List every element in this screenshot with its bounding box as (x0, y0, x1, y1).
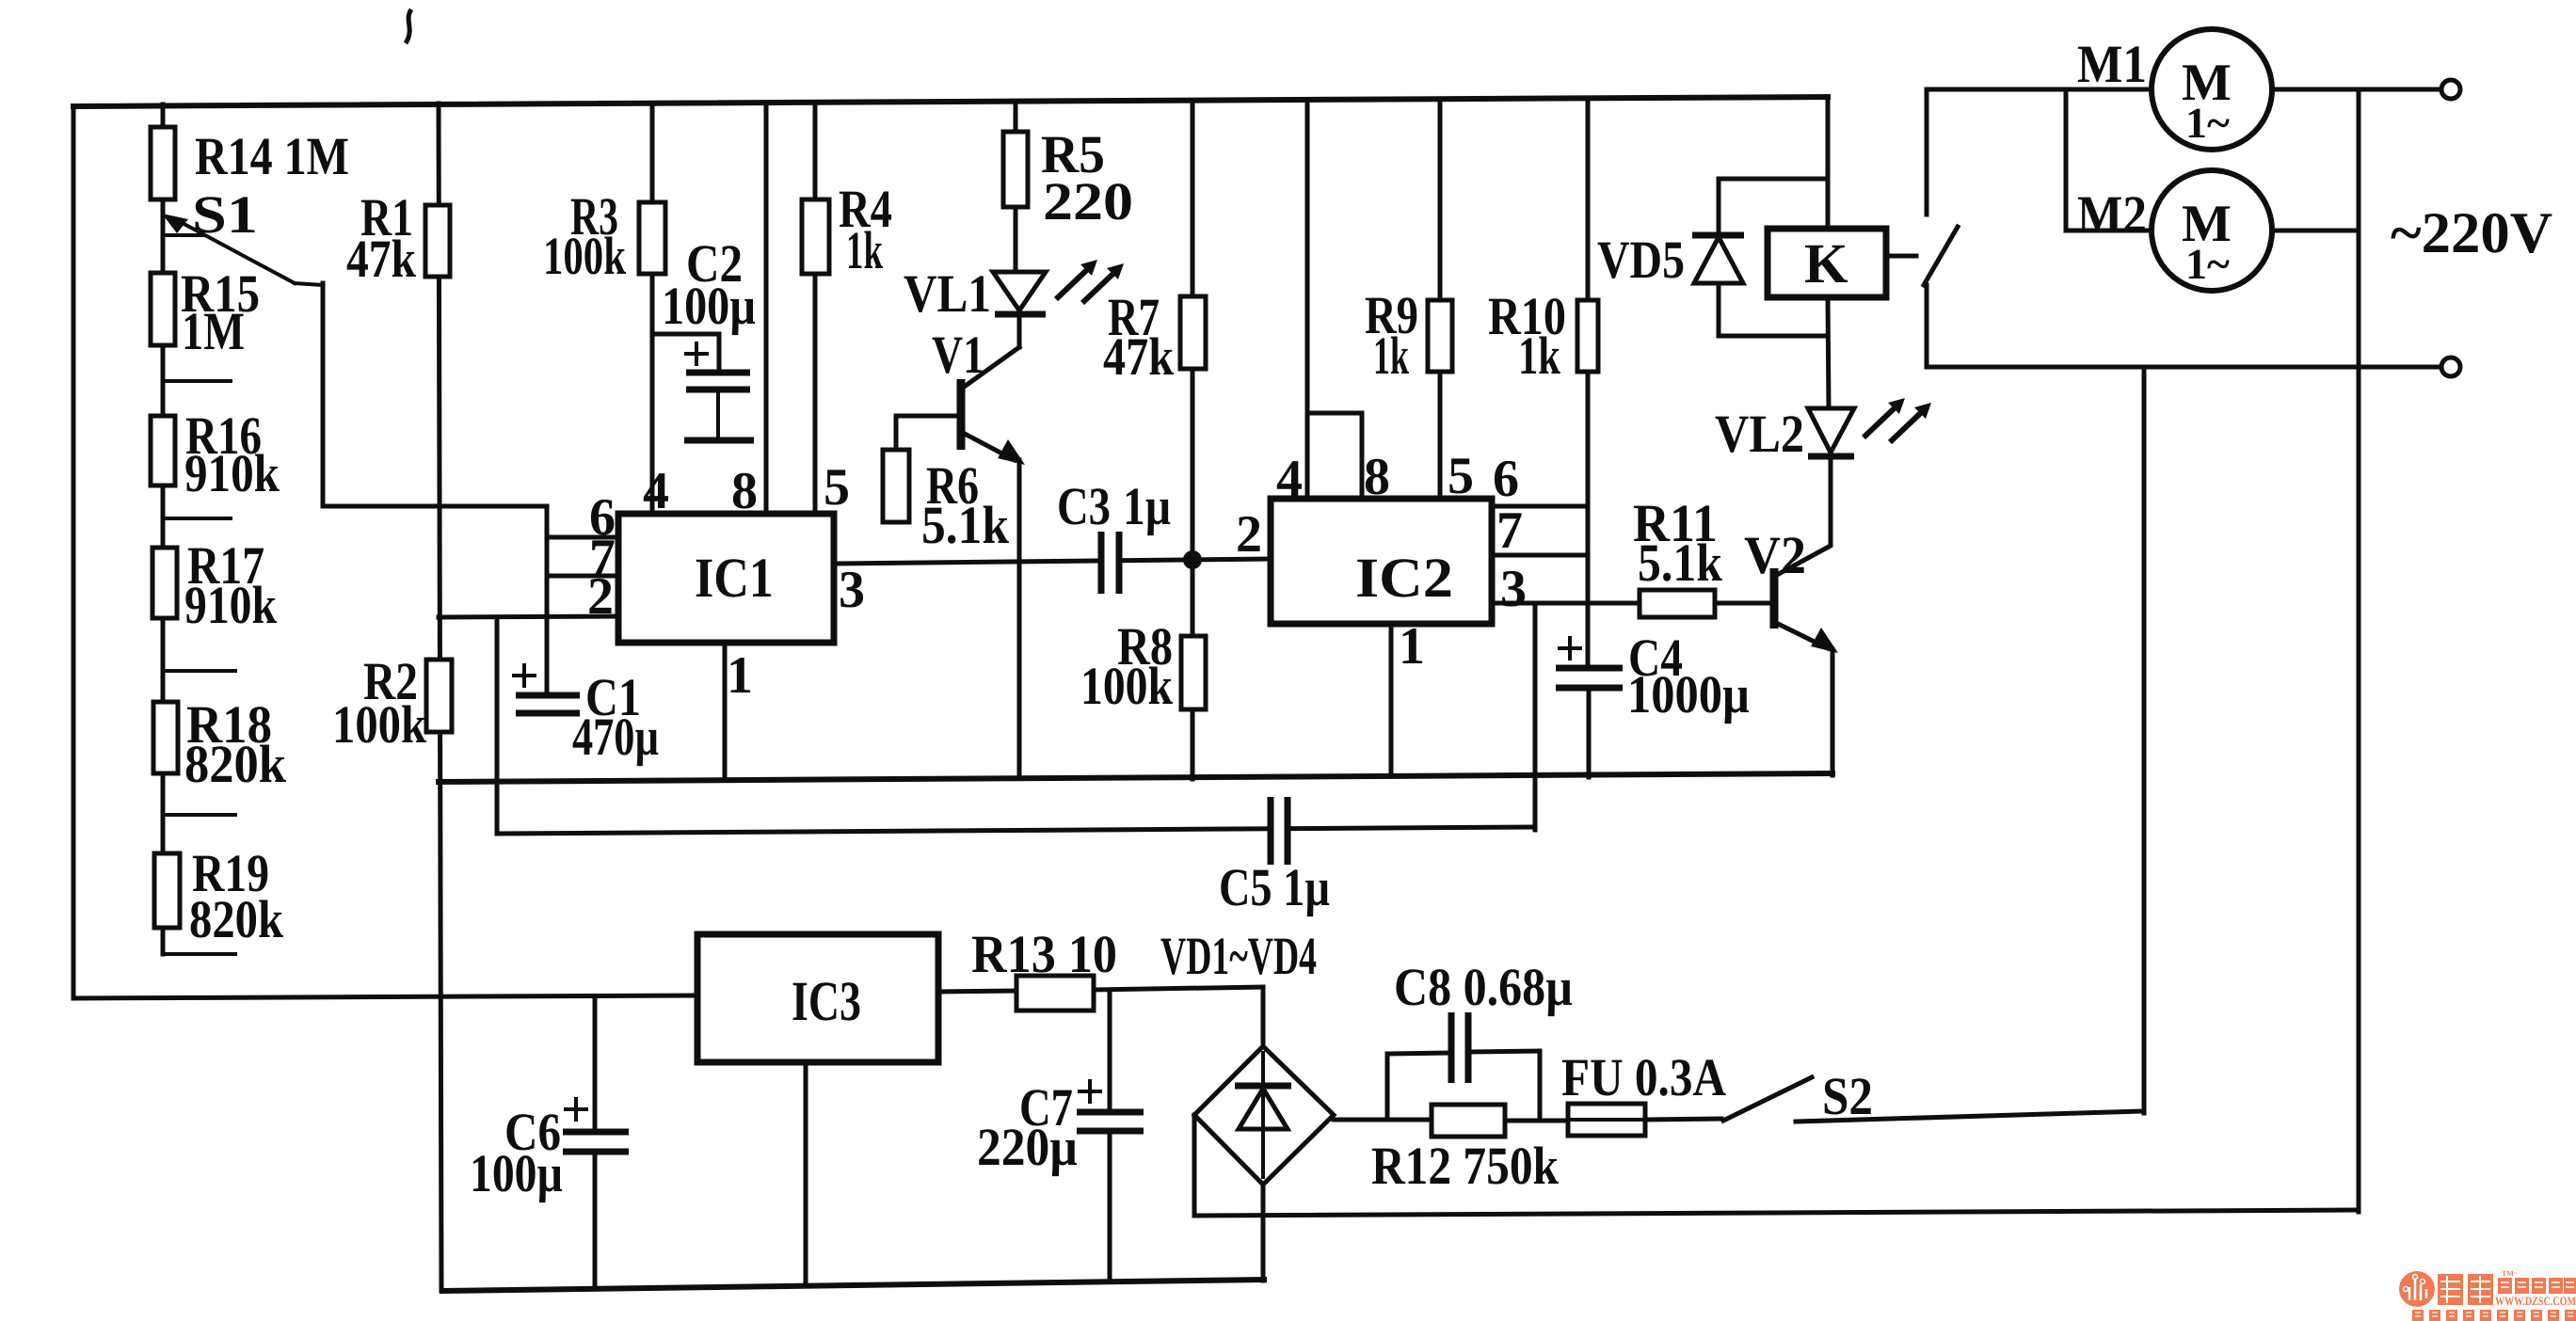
svg-text:3: 3 (1500, 560, 1527, 618)
svg-text:R14 1M: R14 1M (195, 127, 349, 186)
wire R9 / IC2 pin5 column (1438, 99, 1443, 499)
svg-text:VL1: VL1 (904, 264, 991, 324)
watermark bottom slogan blocks (2412, 1310, 2576, 1321)
resistor R4 (802, 180, 892, 280)
svg-text:C8 0.68µ: C8 0.68µ (1394, 958, 1573, 1017)
node tap between R15/R16 (163, 379, 231, 383)
wire R3 / IC1 pin4 column (650, 103, 655, 514)
wire bridge top corner (1261, 987, 1266, 1046)
wire bottom terminal stub (2359, 365, 2441, 370)
svg-text:5: 5 (824, 458, 850, 517)
wire R4 / IC1 pin5 column (813, 103, 818, 514)
IC U3 IC3 (697, 934, 938, 1062)
wire IC1 pin1 column (723, 643, 728, 779)
svg-text:1~: 1~ (2185, 99, 2230, 147)
wire IC2 pin3 line to R11 (1492, 601, 1640, 606)
wire IC3 ground pin (804, 1062, 808, 1281)
wire IC2 pin7 line (1492, 553, 1588, 558)
svg-text:1µ: 1µ (1123, 477, 1171, 536)
svg-text:R13 10: R13 10 (971, 925, 1117, 984)
wire K/VD5 column from bus (1826, 97, 1831, 229)
wire K bottom to VL2 (1828, 297, 1829, 408)
svg-text:1M: 1M (182, 302, 245, 361)
resistor R11 (1633, 494, 1722, 617)
wire IC1 pin7 line (547, 574, 618, 579)
svg-text:220µ: 220µ (977, 1118, 1078, 1177)
motor M2 (2077, 170, 2272, 291)
svg-text:S1: S1 (192, 185, 258, 245)
wire M1 top line (1927, 88, 2152, 92)
svg-text:100k: 100k (332, 695, 426, 755)
watermark big characters (2438, 1274, 2493, 1305)
resistor R12 (1371, 1105, 1559, 1196)
svg-text:1~: 1~ (2185, 240, 2230, 288)
wire R5 column (1014, 102, 1018, 272)
svg-text:5: 5 (1448, 447, 1474, 505)
svg-text:C3: C3 (1057, 477, 1111, 536)
svg-text:1: 1 (1399, 617, 1425, 676)
wire C1 column (545, 506, 550, 695)
node junction dot C3/R7/R8/IC2 pin2 (1183, 550, 1202, 569)
svg-text:4: 4 (643, 462, 669, 520)
terminal lower (2441, 358, 2460, 376)
wire M2 left line (2066, 229, 2152, 233)
resistor R3 (543, 187, 665, 286)
LED VL2 (1715, 398, 1931, 464)
resistor R6 (883, 450, 1009, 555)
wire S1 wiper to IC1 node (323, 283, 547, 506)
fuse FU (1561, 1048, 1726, 1136)
svg-text:100k: 100k (543, 227, 626, 286)
wire R7/R8 column (1191, 101, 1195, 779)
resistor R9 (1365, 286, 1452, 386)
motor M1 (2077, 29, 2272, 150)
wire bridge left vertex down (1192, 1115, 1197, 1216)
svg-text:3: 3 (839, 561, 865, 619)
node tap between R14/R15 (163, 233, 202, 237)
relay K (1768, 229, 1886, 297)
wire C8 top branch left (1387, 1053, 1449, 1054)
resistor R7 (1103, 288, 1206, 387)
svg-text:100µ: 100µ (470, 1144, 563, 1203)
wire V2 emitter column to rail A (1831, 649, 1835, 775)
resistor R13 (971, 925, 1117, 1011)
svg-text:1: 1 (727, 646, 753, 705)
relay contact fixed terminal (1925, 89, 1929, 215)
wire VD5 top link (1719, 177, 1828, 182)
svg-text:VD1~VD4: VD1~VD4 (1160, 927, 1317, 986)
node tap below R19 (163, 952, 235, 956)
svg-text:4: 4 (1276, 450, 1303, 508)
wire R12/C8 right junction (1538, 1051, 1543, 1121)
resistor R5 (1003, 125, 1133, 231)
wire ground rail A under IC1/IC2 (439, 773, 1832, 782)
watermark small characters row (2498, 1269, 2576, 1294)
node tap between R16/R17 (163, 517, 231, 520)
resistor R15 (151, 264, 260, 361)
wire R10 / C4 column (1586, 98, 1591, 668)
wire C5 branch column (495, 617, 500, 834)
wire C2 link from R3 column (652, 334, 719, 373)
wire rail B through C5 (497, 827, 1535, 834)
node tap between R17/R18 (163, 669, 235, 673)
capacitor C2 (662, 234, 756, 440)
wire R12/C8 left junction (1385, 1054, 1390, 1120)
svg-text:100µ: 100µ (662, 277, 756, 336)
svg-text:910k: 910k (184, 444, 280, 503)
wire IC2 pin1 column (1389, 624, 1394, 776)
svg-text:1k: 1k (1518, 326, 1560, 386)
wire IC2 pin4 column (1305, 100, 1310, 499)
svg-text:220: 220 (1043, 172, 1133, 231)
switch S1 wiper arm (162, 185, 323, 285)
wire bottom rail (442, 1280, 1264, 1291)
svg-text:6: 6 (1493, 450, 1519, 508)
resistor R14 (151, 127, 349, 199)
wire top supply bus (73, 97, 1828, 106)
wire IC2 pin6 line (1492, 504, 1588, 509)
wire VL2 to V2 collector (1777, 456, 1831, 575)
wire C8 top branch right (1470, 1051, 1540, 1052)
capacitor C1 (514, 665, 659, 767)
wire AC rail from bridge to right column (1194, 1210, 2359, 1216)
svg-text:M2: M2 (2077, 185, 2147, 245)
resistor R17 (152, 536, 277, 635)
wire M2 branch vertical (2064, 89, 2069, 231)
svg-text:910k: 910k (184, 576, 277, 635)
svg-text:TM: TM (2502, 1269, 2514, 1278)
wire C6 column (593, 997, 598, 1132)
svg-text:2: 2 (1236, 505, 1262, 564)
svg-text:WWW.DZSC.COM: WWW.DZSC.COM (2495, 1294, 2576, 1308)
transistor V2 (1744, 526, 1838, 653)
wire right column down to AC rail (2357, 89, 2361, 1212)
svg-text:1k: 1k (846, 221, 883, 280)
capacitor C8 (1394, 958, 1573, 1087)
wire resistor chain column R14-R19 (161, 104, 166, 954)
resistor R8 (1080, 617, 1206, 716)
diode VD5 (1597, 231, 1744, 290)
resistor R1 (346, 188, 450, 289)
switch S2 arm (1723, 1077, 1812, 1121)
wire motor-box bottom line (1927, 365, 2359, 370)
stray scan mark top (406, 9, 411, 43)
wire C7 column (1108, 991, 1112, 1112)
svg-text:47k: 47k (346, 230, 416, 289)
svg-text:VD5: VD5 (1597, 231, 1685, 290)
wire IC3 right line to bridge (938, 991, 1016, 992)
svg-text:5.1k: 5.1k (921, 496, 1009, 555)
svg-text:V1: V1 (932, 326, 984, 385)
svg-text:V2: V2 (1744, 526, 1806, 585)
wire bottom-left rail to IC3 (73, 995, 697, 998)
wire S2 column from motor-box (2142, 367, 2147, 1113)
IC U2 IC2 (1271, 499, 1492, 624)
IC U1 IC1 (618, 514, 834, 643)
svg-text:7: 7 (1496, 501, 1523, 560)
capacitor C5 (1219, 795, 1330, 917)
wire R11 to V2 base (1715, 601, 1774, 606)
svg-text:820k: 820k (189, 890, 283, 949)
capacitor C4 (1556, 629, 1750, 724)
wire M2 right line (2272, 229, 2359, 233)
wire VD5 branch verticals (1717, 179, 1721, 235)
resistor R2 (332, 652, 452, 755)
resistor R19 (154, 844, 283, 949)
svg-text:1k: 1k (1373, 326, 1409, 386)
svg-text:IC1: IC1 (695, 547, 774, 609)
wire IC1 pin8 column (764, 103, 769, 514)
svg-text:1000µ: 1000µ (1627, 665, 1750, 724)
svg-text:IC2: IC2 (1355, 547, 1453, 609)
node tap between R18/R19 (163, 813, 235, 817)
svg-text:M1: M1 (2077, 35, 2147, 94)
svg-text:820k: 820k (184, 735, 286, 794)
wire left outer branch (72, 106, 76, 998)
wire S2 to motor column (1796, 1111, 2144, 1122)
watermark logo circle (2399, 1271, 2435, 1307)
capacitor C6 (470, 1099, 629, 1203)
svg-text:S2: S2 (1822, 1067, 1873, 1126)
terminal upper (2441, 80, 2460, 99)
wire bridge bottom vertex down (1261, 1185, 1266, 1281)
capacitor C7 (977, 1078, 1144, 1177)
resistor R16 (151, 406, 280, 503)
resistor R10 (1488, 287, 1598, 386)
wire C5 to IC2 pin3 column (1533, 603, 1538, 830)
wire M1 right line to terminal (2272, 88, 2441, 92)
wire FU to S2 (1645, 1119, 1721, 1120)
wire bridge right vertex to R12 (1334, 1118, 1432, 1122)
svg-text:FU 0.3A: FU 0.3A (1561, 1048, 1726, 1107)
svg-text:C5 1µ: C5 1µ (1219, 858, 1330, 917)
wire C4 bottom stem (1587, 688, 1592, 777)
wire VD5 bottom link (1719, 334, 1828, 339)
wire IC1 pin6 line (547, 535, 618, 540)
svg-text:K: K (1804, 232, 1848, 294)
svg-text:470µ: 470µ (572, 708, 659, 767)
svg-text:2: 2 (587, 567, 614, 626)
relay contact moving arm (1924, 227, 1958, 285)
svg-text:100k: 100k (1080, 657, 1173, 716)
svg-text:~220V: ~220V (2391, 201, 2552, 265)
wire IC1 pin2 line (439, 616, 618, 617)
wire V1 emitter column (1017, 460, 1022, 778)
capacitor C3 (1057, 477, 1171, 598)
svg-text:VL2: VL2 (1715, 405, 1804, 464)
wire R1/R2 column (439, 103, 441, 1291)
wire R12 to FU (1505, 1119, 1568, 1123)
wire IC2 pin8 hook (1307, 413, 1362, 499)
LED VL1 (904, 260, 1124, 324)
svg-text:5.1k: 5.1k (1638, 533, 1722, 593)
svg-text:8: 8 (1364, 448, 1390, 506)
transistor V1 (896, 314, 1025, 465)
svg-text:8: 8 (731, 462, 758, 520)
wire K contact pin (1886, 254, 1916, 259)
wire contact to motor-box bottom (1925, 285, 1929, 367)
rectifier bridge VD1-VD4 (1160, 927, 1334, 1185)
svg-text:47k: 47k (1103, 327, 1174, 387)
wire IC1 pin3 line to C3 and IC2 pin2 (834, 559, 1271, 564)
svg-text:IC3: IC3 (792, 970, 861, 1032)
svg-text:R12 750k: R12 750k (1371, 1137, 1559, 1196)
resistor R18 (153, 695, 286, 794)
